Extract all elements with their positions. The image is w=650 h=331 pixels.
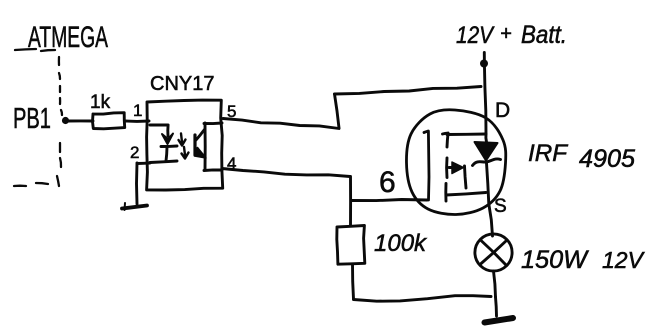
svg-text:ATMEGA: ATMEGA (28, 21, 108, 54)
svg-text:5: 5 (227, 102, 236, 121)
svg-text:1k: 1k (90, 92, 111, 113)
svg-text:12V: 12V (602, 247, 646, 273)
svg-text:4: 4 (227, 154, 236, 173)
svg-text:4905: 4905 (579, 145, 635, 173)
svg-text:+: + (500, 23, 512, 45)
svg-text:Batt.: Batt. (521, 21, 567, 49)
svg-text:S: S (494, 196, 507, 217)
svg-text:6: 6 (379, 166, 396, 199)
svg-text:IRF: IRF (528, 140, 568, 167)
svg-text:PB1: PB1 (13, 103, 51, 135)
svg-text:150W: 150W (521, 246, 589, 274)
svg-text:100k: 100k (374, 230, 428, 257)
svg-text:D: D (495, 99, 510, 122)
svg-text:CNY17: CNY17 (150, 73, 214, 95)
svg-text:12V: 12V (456, 22, 495, 49)
svg-text:1: 1 (133, 101, 142, 120)
svg-text:2: 2 (130, 143, 139, 162)
